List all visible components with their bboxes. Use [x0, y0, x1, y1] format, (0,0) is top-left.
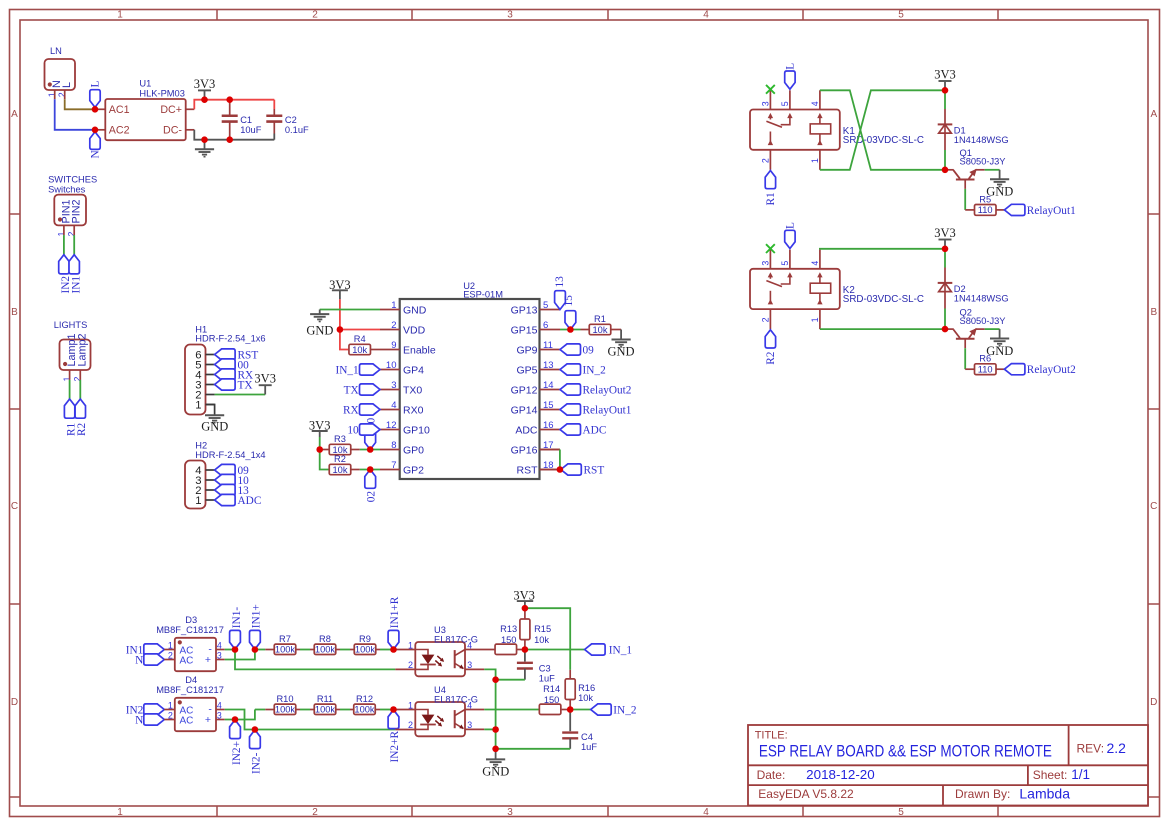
svg-text:IN1+: IN1+ [251, 604, 263, 628]
svg-text:3: 3 [507, 807, 513, 818]
svg-text:D: D [11, 697, 18, 708]
svg-text:12: 12 [386, 420, 397, 431]
svg-text:100k: 100k [315, 645, 336, 655]
svg-text:3: 3 [761, 101, 771, 106]
svg-text:110: 110 [978, 205, 993, 215]
svg-text:C1: C1 [240, 115, 252, 125]
svg-text:TX: TX [238, 379, 253, 391]
svg-text:R15: R15 [534, 624, 551, 634]
svg-text:1uF: 1uF [539, 673, 555, 683]
svg-text:U4: U4 [434, 685, 446, 695]
svg-text:1: 1 [391, 300, 396, 311]
svg-text:R1: R1 [765, 192, 777, 205]
svg-text:ADC: ADC [583, 424, 607, 436]
svg-text:2.2: 2.2 [1107, 740, 1127, 756]
svg-text:4: 4 [391, 400, 396, 411]
svg-text:GP0: GP0 [403, 444, 424, 456]
svg-text:GP12: GP12 [511, 384, 538, 396]
svg-text:L: L [90, 81, 102, 88]
svg-text:10k: 10k [352, 345, 367, 355]
svg-text:IN_1: IN_1 [609, 644, 632, 656]
svg-text:AC: AC [180, 716, 194, 727]
svg-text:IN2+R: IN2+R [389, 731, 401, 763]
svg-text:HDR-F-2.54_1x6: HDR-F-2.54_1x6 [195, 334, 265, 344]
svg-text:1: 1 [810, 158, 820, 163]
svg-text:C2: C2 [285, 115, 297, 125]
svg-text:ADC: ADC [515, 424, 538, 436]
svg-text:1N4148WSG: 1N4148WSG [954, 135, 1009, 145]
svg-text:1: 1 [47, 92, 57, 97]
svg-text:VDD: VDD [403, 324, 426, 336]
svg-text:D: D [1150, 697, 1157, 708]
svg-text:1/1: 1/1 [1071, 767, 1090, 782]
svg-text:N: N [135, 655, 143, 667]
svg-text:U3: U3 [434, 625, 446, 635]
svg-text:GND: GND [607, 344, 634, 358]
svg-text:10k: 10k [578, 693, 593, 703]
svg-text:5: 5 [898, 10, 904, 21]
svg-text:1N4148WSG: 1N4148WSG [954, 293, 1009, 303]
svg-text:GP15: GP15 [511, 324, 538, 336]
svg-text:TX: TX [344, 384, 359, 396]
svg-text:AC2: AC2 [109, 125, 130, 137]
svg-text:Enable: Enable [403, 344, 436, 356]
svg-text:Sheet:: Sheet: [1033, 768, 1068, 782]
svg-text:B: B [1150, 307, 1157, 318]
svg-text:ESP RELAY BOARD && ESP MOTOR R: ESP RELAY BOARD && ESP MOTOR REMOTE [759, 741, 1052, 760]
svg-text:GND: GND [482, 765, 509, 779]
svg-text:14: 14 [543, 380, 554, 391]
svg-text:D2: D2 [954, 284, 966, 294]
svg-text:5: 5 [780, 261, 790, 266]
svg-text:REV:: REV: [1077, 741, 1105, 755]
svg-text:AC1: AC1 [109, 104, 130, 116]
svg-text:R6: R6 [979, 354, 991, 364]
svg-text:Switches: Switches [48, 184, 86, 194]
svg-text:150: 150 [544, 695, 560, 705]
svg-text:L: L [61, 82, 73, 88]
svg-text:R1: R1 [594, 314, 606, 324]
svg-text:100k: 100k [275, 705, 296, 715]
svg-text:D4: D4 [185, 675, 197, 685]
svg-text:110: 110 [978, 365, 993, 375]
svg-text:IN1+R: IN1+R [389, 596, 401, 628]
svg-text:RelayOut1: RelayOut1 [583, 404, 632, 416]
svg-text:RST: RST [517, 464, 539, 476]
svg-text:S8050-J3Y: S8050-J3Y [960, 316, 1006, 326]
svg-text:3: 3 [761, 261, 771, 266]
svg-text:2: 2 [312, 10, 318, 21]
svg-text:R4: R4 [354, 334, 366, 344]
svg-text:3V3: 3V3 [934, 68, 956, 82]
svg-text:1: 1 [810, 317, 820, 322]
svg-text:GP13: GP13 [511, 304, 538, 316]
svg-text:2: 2 [57, 92, 67, 97]
svg-text:1: 1 [168, 640, 173, 650]
svg-text:D1: D1 [954, 125, 966, 135]
svg-text:IN_2: IN_2 [613, 704, 637, 716]
svg-text:R5: R5 [979, 194, 991, 204]
svg-text:IN1: IN1 [70, 276, 82, 294]
svg-text:3V3: 3V3 [934, 226, 956, 240]
svg-text:RelayOut2: RelayOut2 [583, 384, 632, 396]
svg-text:EasyEDA V5.8.22: EasyEDA V5.8.22 [758, 787, 854, 801]
svg-text:R2: R2 [76, 422, 88, 436]
svg-text:11: 11 [543, 340, 553, 351]
svg-text:4: 4 [810, 261, 820, 266]
svg-text:1: 1 [168, 700, 173, 710]
svg-text:3: 3 [507, 10, 513, 21]
svg-text:GP2: GP2 [403, 464, 424, 476]
svg-text:Date:: Date: [757, 768, 786, 782]
svg-text:9: 9 [391, 340, 396, 351]
svg-text:09: 09 [583, 344, 595, 356]
svg-text:GP10: GP10 [403, 424, 430, 436]
svg-text:GP9: GP9 [516, 344, 537, 356]
svg-text:02: 02 [366, 491, 378, 503]
svg-text:1: 1 [408, 700, 413, 710]
svg-text:10k: 10k [593, 325, 608, 335]
svg-text:RelayOut2: RelayOut2 [1027, 364, 1076, 376]
svg-text:DC+: DC+ [160, 104, 182, 116]
svg-text:R2: R2 [765, 351, 777, 365]
svg-text:2: 2 [168, 710, 173, 720]
svg-text:10k: 10k [534, 635, 549, 645]
svg-text:10k: 10k [333, 465, 348, 475]
svg-text:HLK-PM03: HLK-PM03 [139, 88, 184, 98]
svg-text:2: 2 [761, 158, 771, 163]
svg-text:15: 15 [543, 400, 554, 411]
svg-text:3: 3 [391, 380, 396, 391]
svg-text:5: 5 [898, 807, 904, 818]
svg-text:LIGHTS: LIGHTS [54, 320, 88, 330]
svg-text:1: 1 [408, 640, 413, 650]
svg-text:S8050-J3Y: S8050-J3Y [960, 157, 1006, 167]
svg-text:C: C [1150, 501, 1157, 512]
svg-text:IN_2: IN_2 [583, 364, 607, 376]
svg-text:4: 4 [810, 101, 820, 106]
svg-text:Drawn By:: Drawn By: [955, 787, 1010, 801]
svg-text:R3: R3 [334, 434, 346, 444]
svg-text:C3: C3 [539, 664, 551, 674]
svg-text:GND: GND [201, 420, 228, 434]
svg-text:5: 5 [780, 101, 790, 106]
svg-text:100k: 100k [355, 645, 376, 655]
svg-text:1: 1 [195, 399, 201, 411]
svg-text:Lambda: Lambda [1019, 786, 1070, 802]
svg-text:15: 15 [563, 295, 575, 307]
svg-text:2: 2 [391, 320, 396, 331]
svg-text:ADC: ADC [238, 495, 262, 507]
svg-text:10: 10 [386, 360, 397, 371]
svg-text:R13: R13 [500, 624, 517, 634]
svg-text:1: 1 [117, 10, 123, 21]
svg-text:U1: U1 [139, 78, 151, 88]
svg-text:RST: RST [584, 464, 605, 476]
svg-text:PIN2: PIN2 [71, 199, 83, 223]
svg-text:B: B [11, 307, 18, 318]
svg-text:MB8F_C181217: MB8F_C181217 [156, 685, 224, 695]
svg-text:N: N [90, 150, 102, 158]
svg-text:10uF: 10uF [240, 125, 262, 135]
svg-text:L: L [785, 222, 797, 229]
svg-text:100k: 100k [275, 645, 296, 655]
svg-text:6: 6 [543, 320, 548, 331]
svg-text:RX0: RX0 [403, 404, 424, 416]
svg-text:A: A [1150, 109, 1157, 120]
svg-text:D3: D3 [185, 615, 197, 625]
svg-text:N: N [135, 715, 143, 727]
svg-text:2018-12-20: 2018-12-20 [806, 767, 875, 782]
svg-text:C: C [11, 501, 18, 512]
svg-text:R7: R7 [279, 634, 291, 644]
svg-text:ESP-01M: ESP-01M [463, 290, 503, 300]
svg-text:RX: RX [343, 404, 359, 416]
svg-text:GP14: GP14 [511, 404, 538, 416]
svg-text:4: 4 [703, 807, 709, 818]
svg-text:2: 2 [761, 317, 771, 322]
svg-text:GND: GND [306, 324, 333, 338]
svg-text:LN: LN [50, 46, 62, 56]
svg-text:GP16: GP16 [511, 444, 538, 456]
svg-text:TITLE:: TITLE: [755, 730, 788, 742]
svg-text:IN_1: IN_1 [335, 364, 358, 376]
svg-text:IN2-: IN2- [251, 752, 263, 774]
svg-text:A: A [11, 109, 18, 120]
svg-text:IN1-: IN1- [231, 607, 243, 629]
svg-text:MB8F_C181217: MB8F_C181217 [156, 625, 224, 635]
svg-text:1: 1 [195, 495, 201, 507]
svg-text:HDR-F-2.54_1x4: HDR-F-2.54_1x4 [195, 450, 265, 460]
svg-text:0.1uF: 0.1uF [285, 125, 309, 135]
svg-text:RelayOut1: RelayOut1 [1027, 205, 1076, 217]
svg-text:13: 13 [543, 360, 554, 371]
svg-text:Lamp2: Lamp2 [76, 333, 88, 366]
svg-text:AC: AC [180, 656, 194, 667]
svg-text:10: 10 [347, 424, 359, 436]
svg-text:5: 5 [543, 300, 548, 311]
svg-text:100k: 100k [354, 705, 375, 715]
svg-text:TX0: TX0 [403, 384, 422, 396]
svg-text:2: 2 [168, 650, 173, 660]
svg-text:R14: R14 [543, 684, 560, 694]
svg-text:DC-: DC- [163, 125, 182, 137]
svg-text:R8: R8 [319, 634, 331, 644]
svg-text:SWITCHES: SWITCHES [48, 175, 97, 185]
svg-text:H2: H2 [195, 440, 207, 450]
svg-text:R16: R16 [578, 683, 595, 693]
svg-text:R9: R9 [359, 634, 371, 644]
svg-text:7: 7 [391, 460, 396, 471]
svg-text:SRD-03VDC-SL-C: SRD-03VDC-SL-C [843, 135, 924, 146]
svg-text:1uF: 1uF [581, 742, 597, 752]
svg-text:8: 8 [391, 440, 396, 451]
svg-text:R10: R10 [276, 694, 293, 704]
svg-text:2: 2 [312, 807, 318, 818]
svg-text:R11: R11 [317, 694, 333, 704]
svg-text:SRD-03VDC-SL-C: SRD-03VDC-SL-C [843, 294, 924, 305]
svg-text:13: 13 [554, 276, 566, 288]
svg-text:+: + [205, 714, 211, 726]
svg-text:3V3: 3V3 [254, 372, 276, 386]
svg-text:IN2+: IN2+ [231, 741, 243, 765]
svg-text:C4: C4 [581, 732, 593, 742]
svg-text:R12: R12 [356, 694, 373, 704]
svg-text:4: 4 [703, 10, 709, 21]
svg-text:GND: GND [403, 304, 427, 316]
svg-text:L: L [785, 63, 797, 70]
svg-text:100k: 100k [315, 705, 336, 715]
svg-text:R2: R2 [334, 454, 346, 464]
svg-text:1: 1 [117, 807, 123, 818]
svg-text:+: + [205, 654, 211, 666]
svg-text:GP5: GP5 [516, 364, 537, 376]
svg-text:150: 150 [501, 635, 517, 645]
svg-text:16: 16 [543, 420, 554, 431]
svg-text:3V3: 3V3 [194, 77, 216, 91]
svg-text:GP4: GP4 [403, 364, 424, 376]
